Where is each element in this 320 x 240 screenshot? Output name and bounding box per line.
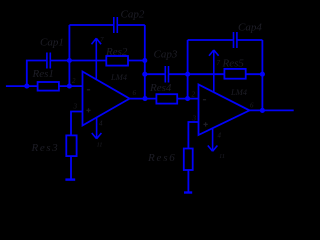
node D vertical: [187, 40, 189, 99]
svg-text:Res1: Res1: [32, 68, 54, 80]
svg-text:Cap2: Cap2: [121, 9, 145, 21]
svg-text:Cap3: Cap3: [154, 49, 178, 61]
svg-text:4: 4: [218, 132, 222, 140]
svg-text:3: 3: [192, 115, 197, 123]
svg-text:Cap4: Cap4: [238, 22, 262, 34]
wire cap3 row: [145, 73, 188, 75]
svg-text:Res5: Res5: [222, 58, 245, 70]
svg-text:Res2: Res2: [105, 46, 128, 58]
resistor R5: [224, 69, 245, 79]
junction dot input: [24, 84, 29, 89]
power arrow down op2: [208, 129, 218, 152]
resistor R3: [66, 135, 76, 156]
power arrow up op1: [92, 38, 102, 79]
svg-text:2: 2: [72, 77, 76, 85]
capacitor C3 plates: [165, 66, 168, 83]
resistor R1: [38, 82, 59, 91]
svg-text:7: 7: [217, 59, 221, 67]
svg-text:Cap1: Cap1: [40, 37, 64, 49]
plus sign op2: [204, 122, 208, 126]
svg-text:3: 3: [73, 103, 78, 111]
wire top loop 2: [188, 39, 263, 41]
svg-text:LM4: LM4: [110, 72, 128, 82]
resistor R4: [156, 94, 177, 103]
wire res2 row: [69, 60, 144, 62]
svg-text:LM4: LM4: [230, 87, 248, 97]
svg-text:11: 11: [97, 141, 103, 148]
svg-text:4: 4: [99, 120, 103, 128]
junction dot res5 right: [260, 72, 265, 77]
wire cap1 branch left: [27, 61, 47, 87]
ground 2 bar: [184, 191, 192, 193]
wire input: [6, 85, 83, 87]
svg-text:11: 11: [219, 153, 225, 160]
junction dot node A bottom: [67, 84, 72, 89]
svg-text:Res3: Res3: [31, 142, 60, 154]
resistor R6: [184, 149, 193, 171]
op-amp U1: [83, 72, 130, 126]
feedback vertical right: [261, 40, 263, 110]
resistor R2: [106, 56, 128, 66]
junction dot op2 output: [260, 108, 265, 113]
svg-text:6: 6: [133, 89, 137, 97]
wire R6 to ground: [187, 170, 189, 192]
svg-text:6: 6: [250, 102, 254, 110]
svg-text:Res6: Res6: [147, 152, 177, 164]
wire R3 to ground: [70, 156, 72, 179]
wire op1 output row: [130, 98, 199, 100]
junction dot node D cap3: [185, 72, 190, 77]
plus sign op1: [86, 108, 90, 112]
capacitor C1 plates: [47, 53, 50, 69]
ground 1 bar: [65, 178, 75, 180]
junction dot node C cap3: [142, 72, 147, 77]
wire op1 non-inverting to R3: [71, 112, 83, 136]
wire res5 row: [188, 73, 263, 75]
junction dot node D res4: [185, 96, 190, 101]
op-amp U2: [199, 85, 250, 136]
capacitor C4 plates: [234, 32, 237, 48]
svg-text:Res4: Res4: [149, 82, 172, 94]
power arrow down op1: [92, 118, 102, 139]
minus sign op1: [87, 89, 90, 91]
power arrow up op2: [209, 50, 219, 92]
svg-text:2: 2: [192, 91, 196, 99]
junction dot node C res2: [142, 58, 147, 63]
wire cap1 branch right: [51, 60, 70, 62]
node C vertical: [144, 25, 146, 99]
junction dot node A top: [67, 58, 72, 63]
wire top loop 1: [69, 24, 144, 26]
node A vertical: [68, 25, 70, 86]
wire op2 output: [250, 109, 294, 111]
svg-text:7: 7: [100, 36, 104, 44]
capacitor C2 plates: [114, 17, 118, 33]
minus sign op2: [203, 99, 206, 101]
junction dot node C output: [142, 96, 147, 101]
wire op2 non-inverting to R6: [188, 122, 198, 149]
